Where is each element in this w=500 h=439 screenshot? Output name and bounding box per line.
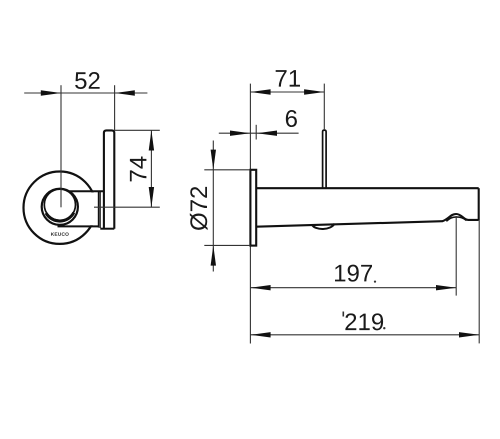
dim 197 label (335, 265, 372, 282)
lever stick extension line (323, 84, 325, 130)
dim 219 label (345, 313, 383, 330)
KEUCO logo text (51, 232, 69, 235)
dim 197 right arrow (436, 285, 456, 290)
dim 52 extension line right (114, 85, 116, 130)
spout tip face (478, 188, 480, 220)
dim 197 dimension line (250, 287, 456, 289)
dim 52 extension line left (hub centerline) (60, 85, 62, 207)
dia72 bottom arrow (211, 245, 216, 265)
handle arm bottom edge (58, 225, 99, 227)
dim 71 left arrow (250, 89, 270, 94)
dim 52 left arrow (41, 90, 61, 95)
dim 52 right arrow (115, 90, 135, 95)
dim 6 extension line right (255, 125, 257, 140)
dim 219 trailing dot (383, 327, 385, 329)
dim 71 label (276, 70, 300, 87)
dim 219 extension line (478, 220, 480, 343)
dim 219 right arrow (459, 332, 479, 337)
rosette front view (large circle) (24, 172, 96, 244)
dim 6 dimension line (219, 132, 299, 134)
handle arm body (hides big-circle arc behind it) (79, 192, 103, 225)
escutcheon plate side view (250, 170, 256, 246)
dim 74 down arrow (149, 187, 154, 207)
dim 52 label (75, 72, 100, 89)
dim 219 dimension line (250, 334, 479, 336)
dim 74 extension line top (114, 129, 160, 131)
dim 71 right arrow (304, 89, 324, 94)
collar/lever bottom edge (100, 228, 114, 230)
lever bar front view (104, 130, 114, 228)
wall extension line (249, 84, 251, 344)
dim 197 trailing dot (374, 281, 376, 283)
dim 197 left arrow (250, 285, 270, 290)
handle arm top edge (70, 190, 104, 192)
dim 219 left arrow (250, 332, 270, 337)
outlet hump inner line (446, 217, 466, 221)
dia72 extension line top (204, 169, 250, 171)
dim 74 extension line bottom (94, 206, 160, 208)
aerator bump (312, 224, 335, 229)
dim 219 leading tick (343, 312, 345, 317)
dia72 label (rotated) (190, 187, 208, 230)
spout top edge (256, 187, 479, 189)
spout underside contour with outlet hump (256, 214, 479, 227)
handle hub inner circle (44, 189, 75, 220)
collar joint double line (98, 191, 100, 227)
dim 197 extension line (455, 216, 457, 296)
dia72 extension line bottom (204, 244, 250, 246)
hub inner bottom thick arc (46, 213, 74, 221)
lever stick side view (323, 130, 327, 188)
dim 6 right arrow (257, 131, 277, 136)
dim 71 dimension line (250, 91, 324, 93)
dim 52 dimension line (24, 92, 147, 94)
dia72 top arrow (211, 150, 216, 170)
dim 74 label (rotated) (130, 157, 147, 182)
dim 6 left arrow (230, 131, 250, 136)
handle hub outer circle (42, 189, 78, 225)
dim 6 label (286, 110, 297, 127)
dim 74 dimension line (150, 130, 152, 207)
dim 74 up arrow (149, 130, 154, 150)
dia72 dimension line (212, 141, 214, 272)
